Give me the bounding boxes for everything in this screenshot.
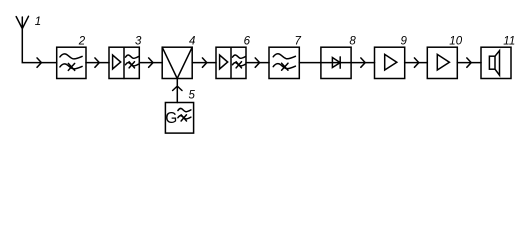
svg-text:5: 5 [189,89,196,101]
wire amplifier 9 to amplifier 10 [405,58,428,67]
svg-text:4: 4 [189,36,195,48]
svg-text:8: 8 [349,36,356,48]
block 7: IF bandpass filter [269,47,299,78]
detector 8 (diode) [321,47,351,78]
wire block 2 to block 3 [86,58,109,67]
loudspeaker 11 [481,47,511,78]
wire filter 7 to detector 8 [299,62,321,64]
svg-text:7: 7 [295,36,302,48]
antenna 1 [16,16,28,28]
svg-text:2: 2 [78,36,86,48]
svg-text:1: 1 [35,16,41,28]
wire mixer 4 to block 6 [192,58,216,67]
wire block 3 to mixer 4 [139,58,162,67]
svg-text:9: 9 [401,36,408,48]
block 3: RF amplifier with filter [109,47,139,78]
block 9: AF amplifier [375,47,405,78]
wire block 6 to filter 7 [246,58,269,67]
wire antenna to block 2 [22,29,56,68]
local oscillator G 5 [165,103,193,134]
block 6: IF amplifier with filter [216,47,246,78]
block 2: bandpass filter [57,47,86,78]
svg-text:10: 10 [449,35,462,47]
mixer 4 [162,47,192,78]
wire detector 8 to amplifier 9 [351,58,374,67]
wire amplifier 10 to loudspeaker 11 [457,58,481,67]
wire oscillator 5 to mixer 4 [173,79,182,103]
svg-text:6: 6 [244,36,251,48]
svg-text:11: 11 [503,35,515,47]
svg-text:3: 3 [135,36,142,48]
svg-text:G: G [165,110,177,127]
block 10: power amplifier [427,47,457,78]
